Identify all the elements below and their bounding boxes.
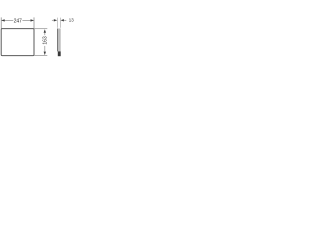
top dimension 247 left line segment	[2, 19, 14, 21]
right extension line above rect corner	[33, 17, 35, 28]
side view plate gray body	[58, 29, 61, 52]
left extension line above rect corner	[0, 17, 2, 28]
top dimension 247 right line segment	[22, 19, 33, 21]
side view bottom clip block	[58, 51, 61, 56]
thickness dimension right inward arrow	[61, 19, 64, 21]
thickness dimension left tail line	[52, 19, 54, 21]
top dimension right arrow	[31, 19, 35, 21]
svg-text:247: 247	[14, 18, 22, 24]
top extension line to height dimension	[34, 28, 47, 30]
thickness dimension left inward arrow	[54, 19, 57, 21]
side view left extension line	[57, 18, 59, 28]
top dimension left arrow	[1, 19, 4, 21]
svg-text:163: 163	[43, 36, 49, 45]
height dimension 163 lower line segment	[44, 46, 46, 53]
height dimension 163 upper line segment	[44, 32, 46, 35]
front view plate rectangle	[1, 29, 34, 56]
height dimension down arrow	[44, 52, 46, 56]
bottom extension line to height dimension	[34, 55, 47, 57]
side view right extension line	[59, 18, 61, 28]
side view plate front face line	[57, 29, 59, 52]
svg-text:13: 13	[69, 18, 74, 23]
height dimension up arrow	[44, 29, 46, 33]
thickness dimension right tail line	[64, 19, 66, 21]
